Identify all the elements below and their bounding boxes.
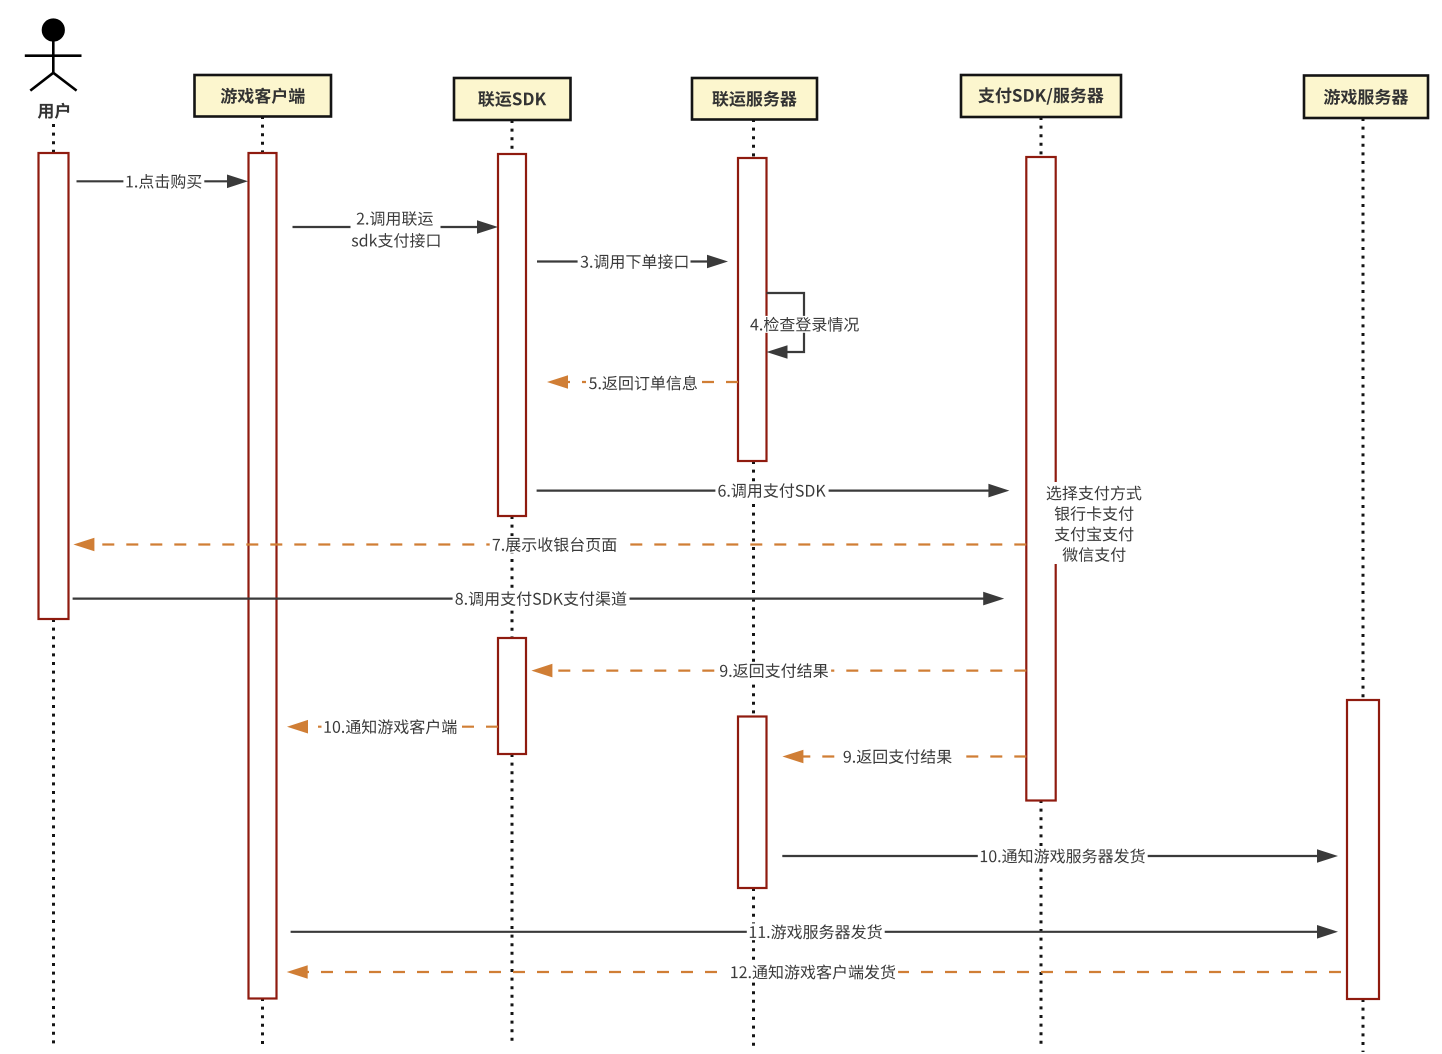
label 2.调用联运 sdk支付接口 [351,209,441,251]
activation bar 联运SDK #1 [498,154,526,516]
label 4.检查登录情况 [747,316,862,333]
message 6.调用支付SDK wire [537,490,991,492]
message 2.调用联运sdk支付接口 wire [293,226,480,228]
participant header 支付SDK/服务器 [961,75,1121,117]
label 10.通知游戏客户端 [322,718,460,735]
message 8.调用支付SDK支付渠道 wire [73,597,986,599]
participant header 联运服务器 [692,78,817,120]
label 12.通知游戏客户端发货 [728,964,898,981]
participant header 联运SDK [454,78,571,120]
actor label 用户 [35,102,72,120]
activation bar 游戏客户端 [249,153,277,999]
lifeline 游戏服务器 [1362,118,1365,700]
note 选择支付方式/银行卡支付/支付宝支付/微信支付 [1044,482,1146,564]
label 10.通知游戏服务器发货 [978,848,1148,865]
lifeline 联运服务器 [752,119,755,158]
label 9.返回支付结果 [717,662,831,679]
lifeline 用户 [52,124,55,153]
message 11.游戏服务器发货 wire [291,931,1319,933]
label 3.调用下单接口 [578,253,691,270]
label 11.游戏服务器发货 [747,923,885,940]
message 5.返回订单信息 wire [566,381,738,383]
message 1.点击购买 wire [77,180,230,182]
activation bar 支付SDK/服务器 [1026,157,1055,801]
activation bar 联运SDK #2 [498,638,526,754]
label 6.调用支付SDK [715,482,828,499]
activation bar 联运服务器 #1 [738,158,767,461]
label 1.点击购买 [123,173,204,190]
lifeline 支付SDK/服务器 [1040,117,1043,157]
activation bar 游戏服务器 [1347,700,1379,999]
label 8.调用支付SDK支付渠道 [453,590,630,607]
activation bar 联运服务器 #2 [738,717,767,889]
message 9.返回支付结果 wire (to 联运服务器) [801,755,1026,757]
participant header 游戏客户端 [195,75,332,117]
message 7.展示收银台页面 wire [92,543,1026,545]
message 4 self-loop wire [767,293,805,352]
message 10.通知游戏客户端 wire [306,726,498,728]
label 5.返回订单信息 [586,375,700,392]
participant header 游戏服务器 [1304,76,1428,119]
label 7.展示收银台页面 [490,536,620,553]
actor 用户 (stick figure) [25,20,82,91]
message 3.调用下单接口 wire [537,260,709,262]
lifeline 联运SDK [511,120,514,154]
message 12.通知游戏客户端发货 wire [306,971,1341,973]
lifeline 游戏客户端 [261,116,264,153]
message 9.返回支付结果 wire (to 联运SDK) [550,669,1026,671]
message 10.通知游戏服务器发货 wire [782,855,1319,857]
label 9.返回支付结果 [841,748,955,765]
activation bar 用户 [39,153,69,619]
